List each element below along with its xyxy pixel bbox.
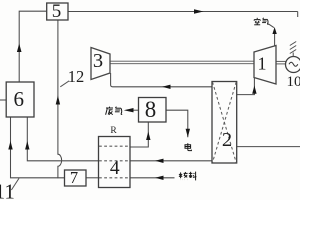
label ranliao (fuel) hand-drawn: [179, 172, 196, 181]
turbine 1 (expander trapezoid): [254, 46, 276, 85]
wire air inlet line to turbine1 top: [274, 34, 276, 47]
svg-text:7: 7: [70, 168, 78, 187]
label kongqi (air) hand-drawn: [254, 18, 268, 25]
arrow up box6 to box5: [17, 44, 22, 53]
wire top line from box 5 to right edge: [0, 11, 300, 178]
svg-text:8: 8: [145, 97, 157, 122]
svg-text:1: 1: [258, 54, 267, 74]
box 8 fuel cell: [139, 98, 167, 123]
svg-text:R: R: [110, 126, 117, 136]
leader slash for 12: [60, 81, 69, 87]
wire turbine3 bottom pipe to box2: [111, 73, 212, 87]
qi: [263, 18, 264, 20]
box 2 heat exchanger: [212, 82, 237, 164]
arrow left box8 to exhaust label: [124, 108, 134, 112]
shaft turbine1 to generator: [276, 60, 286, 62]
box 5: [47, 3, 68, 20]
svg-text:5: 5: [52, 1, 62, 22]
ran: [180, 172, 182, 178]
wire box2 mid-right to image edge: [237, 146, 300, 148]
wire box6 left stub: [0, 99, 6, 101]
svg-text:2: 2: [222, 129, 232, 151]
arrow up box2 to turbine1: [252, 86, 256, 94]
arrow right on top line: [194, 9, 204, 13]
liao: [190, 172, 192, 178]
box 4 reformer R: [99, 137, 131, 188]
arrow down to dian: [186, 129, 190, 137]
wire top-right stub down: [297, 12, 299, 18]
generator 10 circle: [286, 57, 302, 73]
shaft turbine3 to turbine1 (double line): [110, 61, 286, 64]
arrow left box2 to box4: [155, 159, 164, 163]
leader slash for 11: [11, 178, 19, 190]
svg-text:12: 12: [68, 67, 85, 86]
wire box6 bottom-right down to recuperator line: [27, 117, 98, 161]
arrow up on line 12: [56, 96, 60, 105]
svg-text:10: 10: [287, 74, 301, 90]
wire tick from air label: [268, 24, 274, 28]
wire box8 right then down to dian: [166, 110, 188, 137]
arrow up air out: [272, 27, 276, 34]
wire box7 right to box4: [86, 177, 99, 179]
svg-text:3: 3: [93, 50, 103, 72]
generator sine symbol: [289, 62, 298, 66]
wire box2 top-right to turbine1 bottom: [237, 78, 255, 95]
arrow up into box6 right: [25, 141, 29, 150]
label dian (electricity) hand-drawn: [185, 143, 191, 150]
svg-text:4: 4: [110, 158, 120, 179]
wire box8 left exhaust stub: [134, 109, 139, 111]
wire fuel line into box4: [130, 177, 175, 179]
label feiqi (exhaust gas) hand-drawn: [106, 107, 123, 115]
arrow left fuel to box4: [155, 176, 164, 180]
fei: [109, 107, 111, 108]
arrow up into box6 left: [8, 141, 12, 150]
box 7: [65, 170, 87, 186]
wire box5 bottom down with hop over node: [58, 20, 62, 178]
kong: [256, 18, 258, 19]
box 6: [6, 82, 34, 117]
wire box5 left to box6 top: [19, 11, 47, 82]
wire box4 to box8 feed: [130, 122, 148, 147]
turbine 3 (compressor trapezoid): [91, 48, 110, 80]
generator hatch marks above: [290, 42, 296, 57]
qi: [115, 107, 116, 109]
wire box6 bottom-left down to corner 11: [11, 117, 65, 178]
arrow up box4 to box8: [146, 132, 150, 141]
wire box2 bottom to box4: [130, 160, 212, 162]
svg-text:11: 11: [0, 180, 15, 201]
dashed channel lines inside box 4: [99, 146, 130, 178]
arrow left box2 to turbine3: [162, 85, 171, 89]
dashed X inside heat exchanger 2: [213, 82, 237, 163]
svg-text:6: 6: [14, 87, 25, 111]
